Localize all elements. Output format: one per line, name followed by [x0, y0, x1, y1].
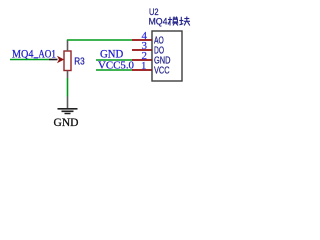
svg-text:VCC5.0: VCC5.0	[98, 60, 134, 72]
resistor R3 body	[64, 51, 71, 71]
wire GND label to pin 2	[96, 59, 132, 61]
svg-text:GND: GND	[54, 117, 79, 129]
CJK glyph 模 (hand drawn strokes)	[168, 17, 178, 26]
svg-text:GND: GND	[100, 48, 123, 60]
svg-text:VCC: VCC	[154, 66, 170, 77]
svg-text:MQ4: MQ4	[12, 48, 34, 60]
ground bar 2	[62, 110, 74, 112]
pin 1 stub	[132, 69, 152, 71]
component U1 body box	[152, 31, 182, 81]
port arrow into R3	[57, 56, 64, 64]
wire MQ4_AO1 green segment	[10, 59, 49, 61]
ground stem	[67, 97, 69, 109]
pin 2 stub	[132, 59, 152, 61]
resistor R3 bottom pin	[67, 71, 69, 79]
svg-text:U2: U2	[149, 7, 159, 17]
svg-text:AO1: AO1	[38, 48, 56, 60]
wire VCC5.0 label to pin 1	[96, 69, 132, 71]
resistor R3 top pin	[67, 40, 69, 51]
svg-text:MQ4: MQ4	[149, 17, 168, 27]
ground bar 1	[58, 108, 78, 110]
CJK glyph 块 (hand drawn strokes)	[179, 17, 190, 26]
pin 4 stub	[132, 39, 152, 41]
wire top to pin 4	[67, 39, 132, 41]
svg-text:R3: R3	[74, 57, 85, 68]
wire MQ4_AO1 black segment	[49, 59, 58, 61]
svg-text:1: 1	[141, 60, 147, 72]
wire resistor bottom to ground	[67, 78, 69, 97]
pin 3 stub	[132, 49, 152, 51]
ground bar 3	[65, 113, 71, 115]
